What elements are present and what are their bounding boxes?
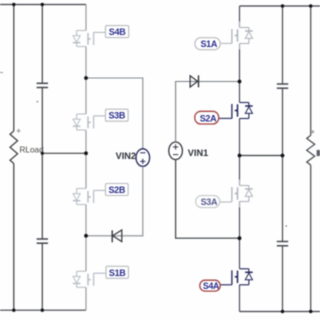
label S3B	[106, 109, 129, 121]
wire: left bus (drain-source string)	[85, 5, 87, 311]
svg-text:RLoad: RLoad	[20, 145, 45, 154]
wire: VIN1 minus down and right to node F	[176, 160, 240, 239]
polarity mark (right lower capacitor)	[285, 225, 287, 227]
transistor S3B	[73, 114, 94, 130]
capacitor (left upper)	[37, 5, 48, 154]
transistor S3A	[232, 186, 253, 202]
label S2A (red highlighted)	[195, 111, 219, 124]
svg-text:VIN2: VIN2	[116, 151, 136, 161]
gate lead S2A	[219, 117, 232, 119]
wire: VIN1 plus up and right to node D	[176, 82, 240, 143]
capacitor (right upper)	[277, 6, 288, 156]
wire: right bus midpoint to capacitor string	[240, 155, 283, 157]
polarity dot (left upper capacitor)	[37, 101, 39, 103]
transistor S2B	[73, 189, 94, 205]
diode (left, cathode to left bus)	[112, 230, 122, 242]
source VIN1	[169, 142, 183, 160]
label S4B	[106, 26, 129, 38]
wire: bottom-right rail	[240, 311, 320, 313]
source VIN2	[136, 149, 150, 167]
transistor S4B	[73, 31, 94, 47]
svg-text:S2B: S2B	[108, 185, 125, 195]
wire: left bus node A to VIN2 plus	[86, 78, 143, 149]
svg-text:S4B: S4B	[109, 27, 126, 37]
wire: top-left rail	[0, 4, 86, 6]
wire: right bus (drain-source string)	[239, 6, 241, 312]
transistor S1B	[73, 271, 94, 287]
resistor (output right)	[307, 6, 315, 312]
capacitor (right lower)	[277, 156, 288, 312]
polarity mark + (right resistor)	[311, 130, 315, 134]
polarity mark + (RLoad)	[17, 129, 21, 133]
gate lead S1A	[220, 42, 232, 44]
transistor S2A	[232, 103, 253, 119]
gate lead S1B	[94, 272, 106, 274]
svg-text:S3A: S3A	[201, 197, 218, 207]
label S2B	[106, 184, 129, 196]
label S1B	[106, 266, 128, 278]
wire: bottom-left rail	[0, 309, 86, 311]
label S1A	[195, 38, 220, 50]
svg-text:S1B: S1B	[109, 268, 126, 278]
wire: top-right rail	[240, 5, 320, 7]
svg-text:S1A: S1A	[200, 39, 217, 49]
svg-text:VIN1: VIN1	[188, 148, 208, 158]
transistor S4A	[232, 269, 253, 285]
gate lead S3B	[94, 115, 106, 117]
wire: VIN2 minus down and left to node C	[86, 166, 143, 235]
diode (right, cathode to right bus)	[190, 75, 198, 87]
transistor S1A	[232, 28, 253, 44]
gate lead S4A	[220, 284, 232, 286]
gate lead S2B	[94, 189, 106, 191]
gate lead S3A	[220, 201, 232, 203]
label S3A	[196, 196, 220, 208]
svg-text:S3B: S3B	[108, 111, 125, 121]
wire: left edge stub	[0, 72, 3, 74]
svg-text:S2A: S2A	[200, 113, 217, 123]
cropped label fragment at right edge	[317, 150, 320, 156]
capacitor (left lower)	[37, 153, 48, 310]
gate lead S4B	[94, 31, 106, 33]
label S4A (red highlighted)	[200, 280, 220, 291]
wire: capacitor midpoint to left bus	[42, 152, 86, 154]
resistor RLoad	[10, 5, 18, 311]
svg-text:S4A: S4A	[203, 281, 220, 291]
